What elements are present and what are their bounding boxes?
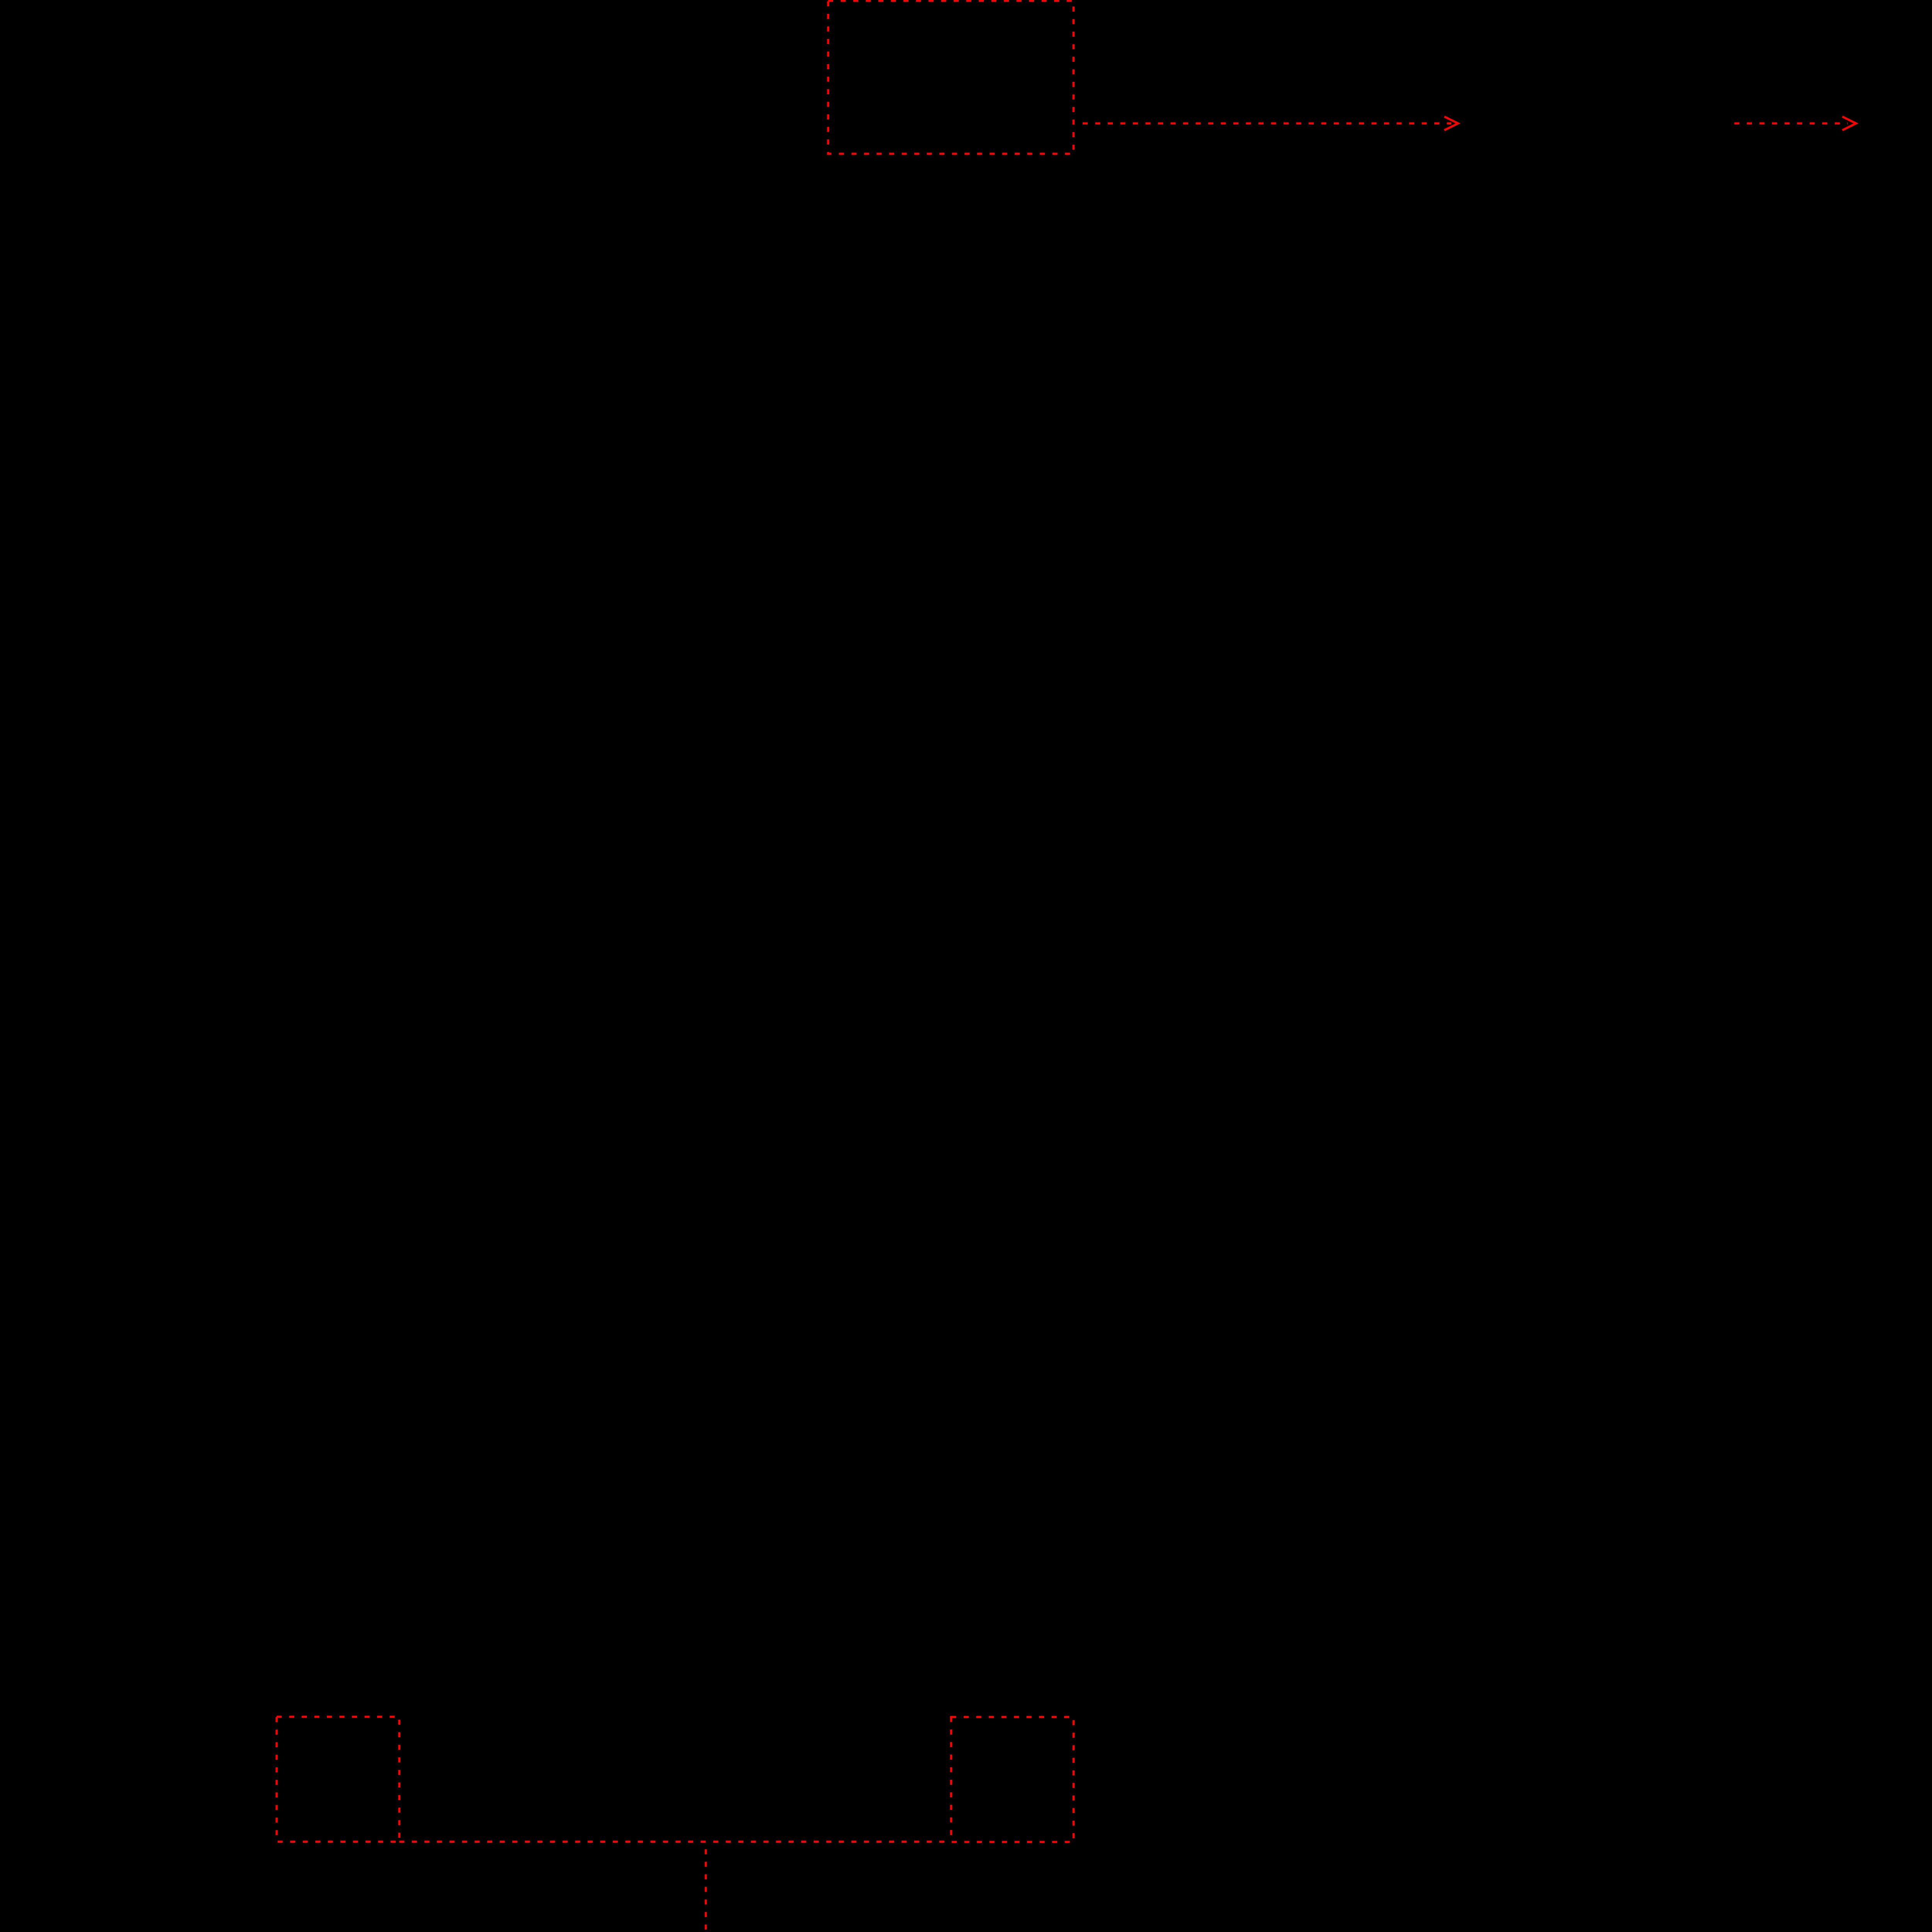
wire (vertical dashed arrow down from connector midpoint): [699, 1842, 713, 1932]
wire (dashed arrow from node A to the right): [1083, 117, 1458, 130]
wire (second dashed arrow segment): [1735, 117, 1856, 130]
wire (dashed connector between node B and node C): [399, 1841, 951, 1843]
node B (lower-left dashed highlight box): [277, 1717, 399, 1842]
node C (lower-right dashed highlight box): [951, 1717, 1074, 1842]
node A (top dashed highlight box): [828, 1, 1073, 154]
